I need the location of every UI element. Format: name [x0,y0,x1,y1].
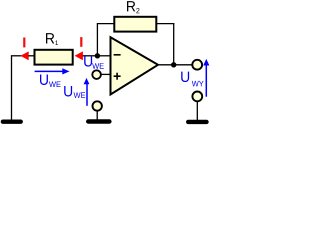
node B (output junction) [171,62,176,67]
op-amp U1 [111,37,159,94]
voltage arrow U_WE across R1 [35,68,70,87]
wire feedback top right [156,23,174,25]
voltage arrow U_WY output [181,59,209,97]
wire [12,55,22,57]
ground (right) [188,101,206,122]
resistor R2 [114,1,156,32]
input terminal bottom [93,101,102,110]
wire feedback vertical right [173,24,175,65]
wire node A to op-amp inverting input [97,55,110,57]
wire feedback top left [97,23,115,25]
voltage arrow U_WE input [64,78,89,106]
input terminal top [92,70,101,79]
current arrow I (left) [20,38,33,61]
label U_WE at node A [84,56,104,69]
wire feedback vertical left [96,24,98,56]
ground (middle) [88,111,109,122]
resistor R1 [35,33,73,64]
wire output [158,64,193,66]
output terminal top [192,60,202,70]
wire [11,55,13,120]
output terminal bottom [192,92,202,102]
node A (inverting input junction) [95,53,100,58]
wire non-inverting input [101,73,110,75]
ground [3,119,21,123]
current arrow I (right) [75,37,98,60]
